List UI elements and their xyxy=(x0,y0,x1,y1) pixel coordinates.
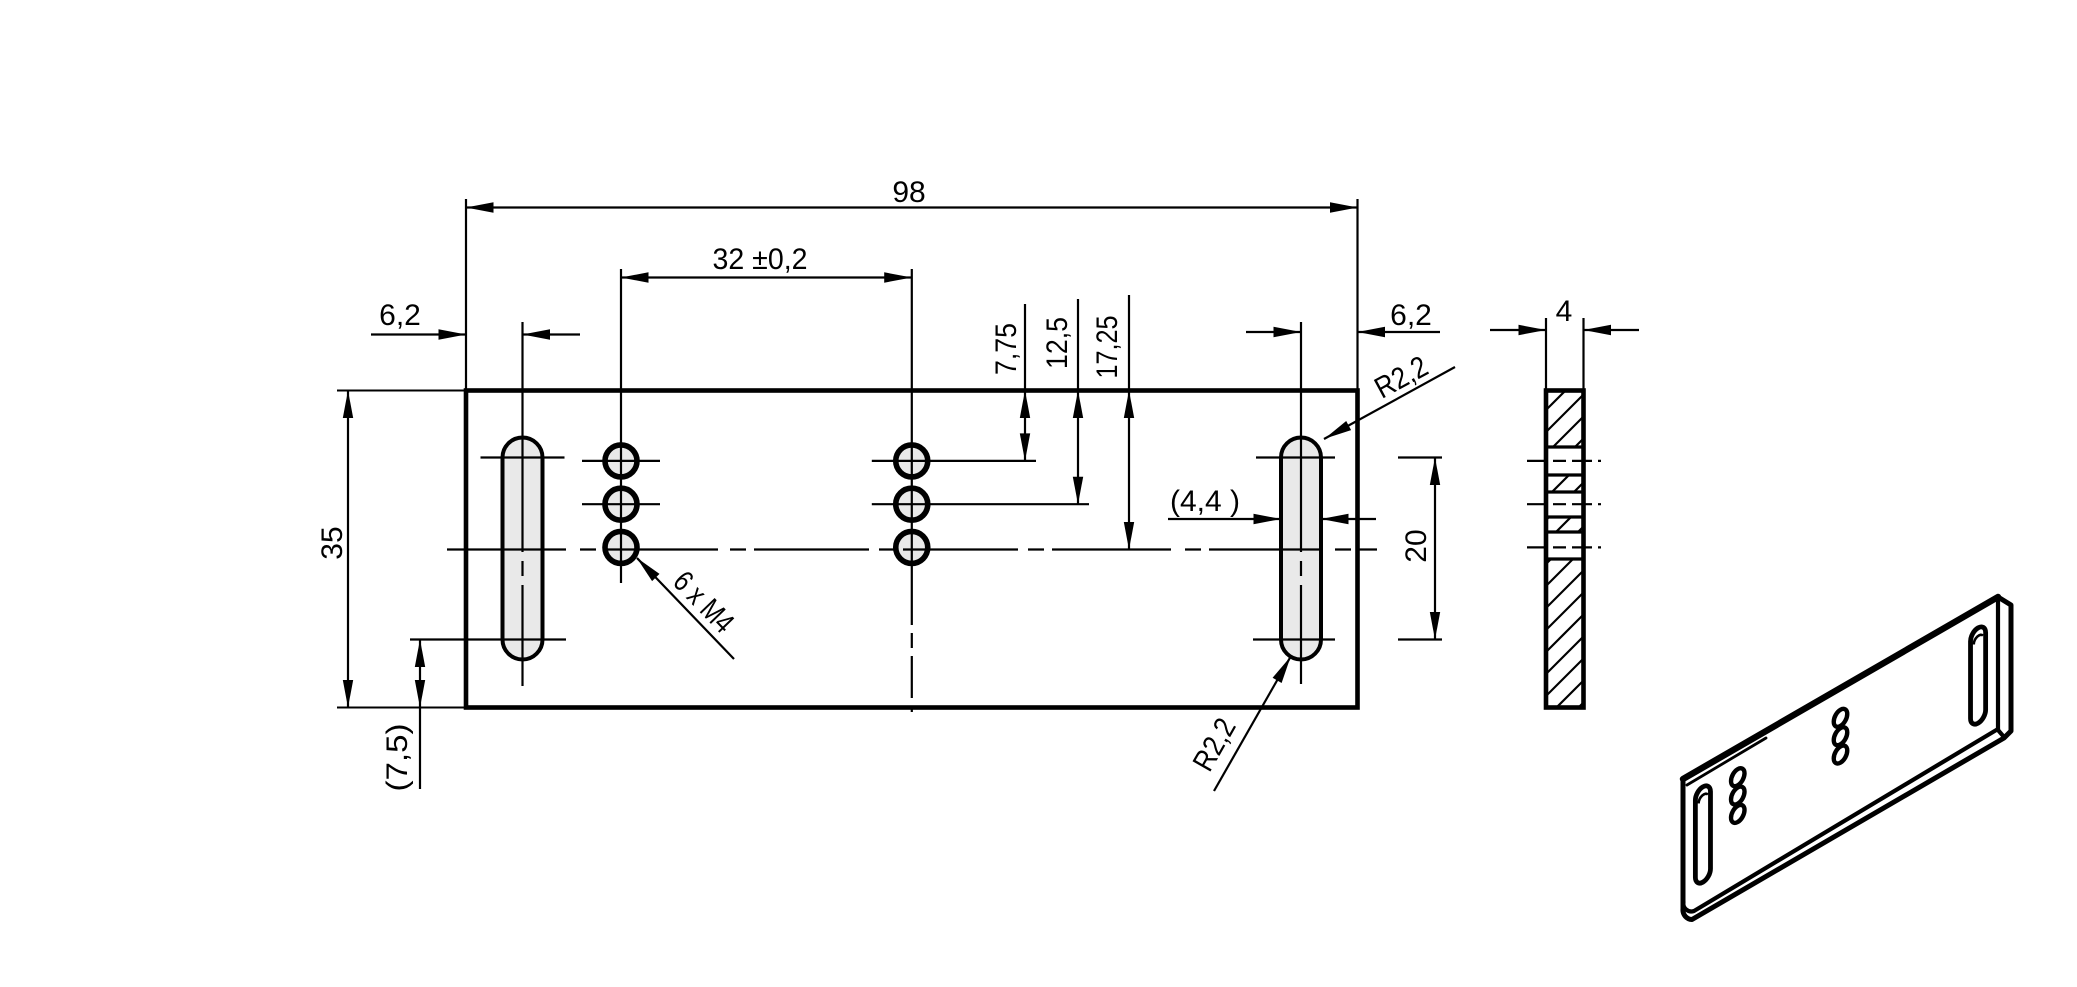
svg-text:12,5: 12,5 xyxy=(1041,317,1074,369)
middle column row-2 tick / 12,5 extension xyxy=(872,503,1089,505)
middle hole column centerline lower dash xyxy=(911,583,913,712)
M4 tapped hole, middle column row 3 xyxy=(896,531,928,563)
left column row-2 tick xyxy=(582,503,660,505)
leader R2,2 (right slot top radius) xyxy=(1324,367,1455,439)
isometric view: plate outline xyxy=(1683,597,2011,920)
M4 tapped hole, middle column row 2 xyxy=(896,488,928,520)
middle column row-1 tick / 7,75 extension xyxy=(872,460,1036,462)
main horizontal centerline xyxy=(447,548,1377,550)
dimension 4 (thickness) xyxy=(1545,318,1547,391)
isometric right slot xyxy=(1971,624,1986,728)
leader R2,2 (right slot bottom radius) xyxy=(1214,656,1291,791)
M4 tapped hole, left column row 2 xyxy=(605,488,637,520)
leader 6 x M4 (tapped holes callout) xyxy=(637,558,734,659)
svg-text:6,2: 6,2 xyxy=(379,299,421,332)
left slot bottom tick / (7,5)-dim extension xyxy=(410,638,566,640)
side view hole band edges xyxy=(1546,445,1584,448)
side view outline xyxy=(1546,391,1584,708)
svg-text:98: 98 xyxy=(892,176,925,209)
svg-text:4: 4 xyxy=(1556,295,1573,328)
right slot vertical centerline xyxy=(1300,322,1302,684)
side view hole centerline xyxy=(1527,546,1601,548)
dimension 35 (plate height) xyxy=(337,390,466,392)
isometric M4 hole, middle column row 1 xyxy=(1834,706,1848,730)
svg-text:20: 20 xyxy=(1400,529,1433,562)
isometric M4 hole, left column row 3 xyxy=(1731,802,1745,826)
left slot vertical centerline xyxy=(521,322,523,686)
svg-text:(7,5): (7,5) xyxy=(381,724,414,792)
dimension 20 (slot arc-center spacing) xyxy=(1398,456,1442,458)
isometric left slot xyxy=(1695,782,1710,886)
right slot top arc-center tick xyxy=(1256,456,1335,458)
dimension 32 ±0,2 (hole column spacing) xyxy=(621,276,912,278)
M4 tapped hole, left column row 3 xyxy=(605,531,637,563)
left slot (4,4 x 24,4 obround) xyxy=(503,438,543,660)
dimension 7,75 (row 1 from top) xyxy=(1024,304,1026,461)
svg-text:17,25: 17,25 xyxy=(1091,316,1124,379)
isometric M4 hole, left column row 1 xyxy=(1731,765,1745,789)
left hole column centerline / 32-dim extension xyxy=(620,269,622,583)
svg-text:7,75: 7,75 xyxy=(990,323,1023,375)
isometric M4 hole, middle column row 3 xyxy=(1834,743,1848,767)
svg-text:32 ±0,2: 32 ±0,2 xyxy=(713,243,808,276)
dimension 6,2 (right slot offset) xyxy=(1246,331,1301,333)
dimension 12,5 (row 2 from top) xyxy=(1077,299,1079,504)
M4 tapped hole, left column row 1 xyxy=(605,445,637,477)
side view hole centerline xyxy=(1527,503,1601,505)
dimension (7,5) slot bottom offset xyxy=(419,640,421,790)
middle hole column centerline / 32-dim extension xyxy=(911,269,913,583)
M4 tapped hole, middle column row 1 xyxy=(896,445,928,477)
isometric M4 hole, middle column row 2 xyxy=(1834,724,1848,748)
dimension 17,25 (row 3 from top) xyxy=(1128,295,1130,550)
dimension 98 (overall width) xyxy=(465,199,467,391)
right slot bottom arc-center tick xyxy=(1253,638,1335,640)
isometric M4 hole, left column row 2 xyxy=(1731,784,1745,808)
right slot (4,4 x 24,4 obround) xyxy=(1281,438,1321,660)
svg-text:(4,4 ): (4,4 ) xyxy=(1170,485,1240,518)
dimension (4,4) slot width xyxy=(1168,518,1281,520)
left slot top arc-center tick xyxy=(481,456,565,458)
svg-text:35: 35 xyxy=(316,526,349,559)
left column row-1 tick xyxy=(582,460,660,462)
side view hole centerline xyxy=(1527,460,1601,462)
svg-text:6,2: 6,2 xyxy=(1390,299,1432,332)
plate front view outline xyxy=(466,391,1358,708)
dimension 6,2 (left slot offset) xyxy=(371,333,466,335)
